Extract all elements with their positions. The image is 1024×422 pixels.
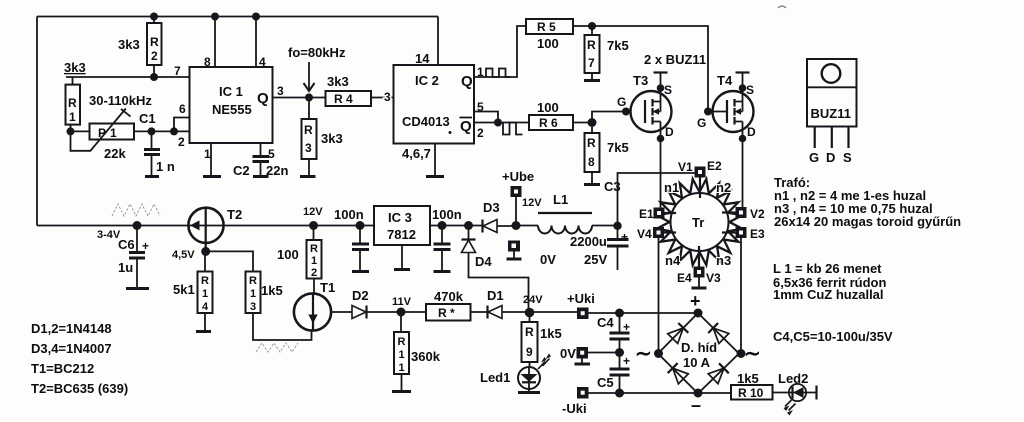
svg-text:Led1: Led1 [480, 370, 510, 385]
IC2 CD4013 [394, 65, 475, 144]
svg-text:C4,C5=10-100u/35V: C4,C5=10-100u/35V [773, 329, 893, 344]
wire: D4 anode to 24V node [469, 253, 529, 313]
terminal -Uki [577, 387, 589, 399]
node: bridge right [737, 349, 746, 358]
svg-text:D1,2=1N4148: D1,2=1N4148 [31, 321, 112, 336]
toroid transformer Tr [657, 179, 743, 265]
svg-text:10 A: 10 A [683, 355, 711, 370]
svg-text:C6: C6 [118, 237, 135, 252]
svg-text:D1: D1 [487, 288, 504, 303]
wire: P1 right to C1 node [134, 130, 190, 132]
potentiometer P1 22k [90, 124, 135, 140]
svg-text:-Uki: -Uki [562, 401, 587, 416]
bridge diode BR [708, 368, 724, 383]
svg-text:C4: C4 [597, 315, 614, 330]
svg-text:+: + [690, 291, 701, 311]
wire: pin 8 to rail [211, 13, 219, 21]
svg-text:C1: C1 [139, 111, 156, 126]
svg-text:1: 1 [399, 362, 405, 374]
svg-text:∼: ∼ [635, 343, 652, 365]
svg-text:11V: 11V [392, 296, 412, 308]
ground: IC2 pins 4,6,7 [434, 144, 436, 176]
wire: R13 to T1 emitter [253, 313, 312, 340]
squarewave symbol Q [486, 69, 510, 78]
led1 arrows [538, 359, 550, 370]
svg-text:3: 3 [305, 141, 312, 155]
svg-text:n2: n2 [716, 180, 731, 195]
terminal V2 [722, 211, 736, 213]
svg-text:4: 4 [202, 301, 209, 313]
svg-text:2: 2 [477, 126, 484, 140]
svg-text:–: – [691, 395, 701, 415]
svg-text:1k5: 1k5 [540, 326, 562, 341]
svg-text:R: R [201, 275, 209, 287]
svg-text:2: 2 [178, 135, 185, 149]
wire: left border vertical (top rail to 12V rail) [36, 17, 38, 226]
wire: pin 4 to rail [252, 13, 260, 21]
resistor R14 5k1 [204, 251, 206, 271]
svg-text:CD4013: CD4013 [402, 114, 450, 129]
wire: 12V rail [37, 225, 374, 227]
svg-text:3k3: 3k3 [118, 37, 140, 52]
svg-text:IC 1: IC 1 [219, 84, 243, 99]
resistor R* 470k [401, 311, 426, 313]
resistor R11 360k [400, 312, 402, 332]
svg-text:100n: 100n [432, 207, 462, 222]
svg-text:7: 7 [588, 56, 595, 70]
node: bridge left [654, 349, 663, 358]
svg-text:7k5: 7k5 [607, 140, 629, 155]
svg-text:R 4: R 4 [334, 92, 353, 106]
svg-text:T1: T1 [320, 280, 335, 295]
svg-text:0V: 0V [540, 252, 556, 267]
wire: top supply rail [37, 16, 438, 18]
wire: R1 node to P1 left [71, 130, 90, 132]
svg-text:2 x BUZ11: 2 x BUZ11 [644, 52, 706, 67]
svg-text:V1: V1 [678, 160, 693, 174]
terminal V1/E2 (primary center tap) [699, 176, 701, 198]
resistor R1 [72, 77, 74, 85]
wire: R5 to T4 gate rail [573, 26, 708, 112]
svg-text:12V: 12V [303, 206, 323, 218]
svg-text:R: R [68, 96, 77, 110]
wire: rail down to IC2 pin 14 [437, 17, 439, 66]
svg-text:100: 100 [277, 247, 299, 262]
svg-text:∼: ∼ [744, 343, 761, 365]
svg-text:5: 5 [268, 147, 275, 161]
svg-text:R 5: R 5 [537, 20, 556, 34]
svg-text:1: 1 [311, 255, 317, 267]
svg-text:470k: 470k [434, 289, 464, 304]
svg-text:3: 3 [384, 90, 391, 104]
svg-text:V3: V3 [706, 271, 721, 285]
svg-text:1: 1 [250, 288, 256, 300]
node: 24V / D4 / R9 [525, 308, 535, 318]
svg-text:25V: 25V [584, 252, 607, 267]
svg-text:+Uki: +Uki [567, 291, 595, 306]
IC3 7812 [374, 206, 430, 245]
svg-text:D3,4=1N4007: D3,4=1N4007 [31, 341, 112, 356]
svg-text:T3: T3 [633, 73, 648, 88]
node: D4/D3 [464, 221, 473, 230]
node: 11V [397, 308, 406, 317]
resistor R3 3k3 [308, 98, 310, 120]
svg-text:3: 3 [250, 301, 256, 313]
LED Led1 [529, 362, 531, 367]
svg-text:E3: E3 [750, 227, 765, 241]
resistor R6 100 [529, 115, 573, 130]
resistor R5 100 [526, 19, 573, 34]
svg-text:1k5: 1k5 [261, 283, 283, 298]
svg-text:7k5: 7k5 [607, 38, 629, 53]
svg-text:D. híd: D. híd [681, 340, 717, 355]
terminal V4 [664, 231, 676, 233]
svg-text:R: R [249, 275, 257, 287]
svg-text:1: 1 [399, 349, 405, 361]
svg-text:24V: 24V [523, 294, 543, 306]
svg-text:T2=BC635 (639): T2=BC635 (639) [31, 381, 128, 396]
svg-text:+: + [621, 230, 628, 244]
svg-text:R 6: R 6 [539, 116, 558, 130]
wire: pin 6 step [174, 118, 190, 132]
resistor R2 [150, 13, 158, 21]
svg-text:Led2: Led2 [778, 371, 808, 386]
svg-text:1k5: 1k5 [737, 371, 759, 386]
wire: 0V line [588, 352, 620, 354]
svg-text:R: R [398, 336, 406, 348]
svg-text:E1: E1 [639, 207, 654, 221]
svg-text:+: + [142, 239, 149, 253]
svg-text:E4: E4 [677, 271, 692, 285]
wire: V4 down to bridge left [658, 238, 660, 354]
wire: pin3 to R4 [273, 97, 326, 99]
svg-text:G: G [697, 116, 706, 130]
wire: 4.5V node to R13 [206, 251, 253, 271]
svg-text:L 1 = kb 26 menet: L 1 = kb 26 menet [773, 261, 882, 276]
svg-text:7812: 7812 [387, 227, 416, 242]
svg-text:8: 8 [588, 155, 595, 169]
svg-text:D: D [826, 150, 835, 165]
capacitor 100n (right of IC3) [438, 221, 447, 230]
BUZ11 package drawing [807, 59, 857, 127]
wire: -Uki line [583, 392, 732, 394]
svg-text:1: 1 [204, 147, 211, 161]
svg-text:C2: C2 [233, 163, 250, 178]
squarewave symbol Qbar [503, 123, 523, 135]
terminal E1 [664, 212, 676, 214]
svg-text:Q: Q [460, 118, 472, 135]
svg-text:30-110kHz: 30-110kHz [89, 93, 152, 108]
svg-text:2: 2 [311, 267, 317, 279]
wire: R1/pin7 net (3k3) [66, 76, 190, 78]
svg-text:+Ube: +Ube [502, 169, 534, 184]
node: R1 bottom / P1 [67, 127, 75, 135]
ground: pin 1 [210, 143, 212, 175]
svg-text:G: G [617, 95, 626, 109]
svg-text:S: S [664, 83, 672, 97]
capacitor 100n (left of IC3) [356, 221, 365, 230]
svg-text:D4: D4 [475, 254, 492, 269]
svg-text:1mm CuZ huzallal: 1mm CuZ huzallal [773, 287, 884, 302]
wire: C3 node up to V1/E2 center tap [618, 173, 696, 226]
wire: R1 node to wiper arm [71, 131, 92, 150]
svg-text:T1=BC212: T1=BC212 [31, 361, 94, 376]
resistor R10 1k5 [731, 385, 773, 400]
svg-text:3k3: 3k3 [321, 131, 343, 146]
svg-text:1u: 1u [118, 260, 133, 275]
svg-text:L1: L1 [553, 192, 568, 207]
svg-text:8: 8 [204, 55, 211, 69]
wire: Qbar pin2 to R6 [474, 122, 529, 124]
svg-text:D: D [747, 125, 756, 139]
svg-text:D2: D2 [352, 288, 369, 303]
svg-text:26x14 20 magas toroid gyűrűn: 26x14 20 magas toroid gyűrűn [774, 214, 961, 229]
stray mark [778, 6, 786, 8]
wire: pin5 stub [474, 112, 498, 123]
svg-text:IC 2: IC 2 [415, 73, 439, 88]
svg-text:3: 3 [277, 84, 284, 98]
svg-text:C5: C5 [597, 375, 614, 390]
svg-text:Tr: Tr [692, 215, 704, 230]
svg-text:3k3: 3k3 [327, 74, 349, 89]
bridge diode TR [713, 328, 729, 344]
svg-text:T2: T2 [227, 207, 242, 222]
svg-text:100: 100 [537, 100, 559, 115]
svg-text:D3: D3 [483, 200, 500, 215]
resistor R9 1k5 [529, 313, 531, 323]
bridge diode TL [668, 328, 684, 344]
svg-text:Q: Q [461, 73, 473, 90]
led2 arrows [785, 400, 796, 411]
svg-text:12V: 12V [522, 197, 542, 209]
toroid labels [664, 180, 731, 268]
resistor R12 100 [309, 221, 318, 230]
svg-text:Q: Q [257, 90, 269, 107]
svg-text:R: R [150, 35, 159, 49]
diode D4 [468, 226, 470, 240]
svg-text:5k1: 5k1 [173, 282, 195, 297]
wire: R4 to IC2 pin3 [371, 97, 394, 99]
svg-text:100: 100 [537, 36, 559, 51]
svg-text:R *: R * [438, 306, 455, 320]
node: bridge - [694, 389, 703, 398]
svg-text:G: G [809, 150, 819, 165]
bridge rectifier D. hid 10A [658, 313, 739, 394]
IC1 NE555 [190, 67, 273, 143]
terminal E3 [722, 231, 736, 233]
svg-text:2: 2 [151, 49, 158, 63]
svg-text:1: 1 [202, 288, 208, 300]
svg-text:R: R [587, 38, 596, 52]
svg-text:S: S [843, 150, 852, 165]
node: C6 [133, 221, 142, 230]
resistor R4 3k3 [326, 91, 372, 106]
svg-text:1: 1 [110, 126, 117, 140]
svg-text:1: 1 [69, 110, 76, 124]
node: C1 / pin2 [148, 127, 156, 135]
svg-text:R: R [587, 136, 596, 150]
svg-text:4: 4 [259, 55, 266, 69]
wire: Q pin1 out, up to R5 [474, 26, 526, 77]
svg-text:2200u: 2200u [570, 234, 607, 249]
svg-text:R: R [310, 243, 318, 255]
svg-text:BUZ11: BUZ11 [811, 106, 851, 121]
svg-text:n3: n3 [716, 253, 731, 268]
bridge diode BL [673, 368, 689, 384]
wire: R6 to T3 gate [573, 112, 645, 126]
node: bridge + [694, 309, 703, 318]
svg-text:fo=80kHz: fo=80kHz [288, 45, 346, 60]
svg-text:n4: n4 [665, 253, 681, 268]
svg-text:1 n: 1 n [156, 159, 175, 174]
svg-text:V2: V2 [750, 207, 765, 221]
svg-text:+: + [623, 354, 630, 368]
svg-text:R 10: R 10 [738, 386, 764, 400]
svg-text:6: 6 [179, 102, 186, 116]
wire: IC3 out [430, 225, 482, 227]
svg-text:NE555: NE555 [212, 102, 252, 117]
svg-text:E2: E2 [707, 159, 722, 173]
terminal E4/V3 (secondary center tap) [698, 246, 700, 267]
svg-text:V4: V4 [637, 227, 652, 241]
diode D1 [471, 311, 488, 313]
capacitor C2 22n [260, 143, 262, 156]
resistor R13 1k5 [246, 272, 261, 314]
terminal 0V (mid) [508, 241, 520, 252]
svg-text:T4: T4 [717, 73, 733, 88]
transistor T2 [188, 208, 223, 243]
node: 4.5V [201, 247, 210, 256]
svg-text:D: D [665, 125, 674, 139]
zigzag decoration 2 [256, 343, 298, 352]
svg-text:4,6,7: 4,6,7 [402, 146, 431, 161]
svg-text:S: S [746, 83, 754, 97]
svg-text:22n: 22n [266, 163, 288, 178]
capacitor C4 [615, 309, 624, 318]
svg-text:14: 14 [415, 51, 430, 66]
svg-text:3k3: 3k3 [64, 60, 86, 75]
svg-text:9: 9 [526, 345, 533, 359]
svg-text:0V: 0V [560, 346, 576, 361]
svg-text:7: 7 [174, 64, 181, 78]
svg-text:R: R [525, 325, 534, 339]
svg-text:22k: 22k [104, 146, 126, 161]
svg-text:360k: 360k [411, 349, 441, 364]
svg-text:n1: n1 [664, 180, 679, 195]
resistor R7 7k5 [591, 26, 593, 35]
zigzag decoration 1 [112, 204, 160, 216]
svg-text:4,5V: 4,5V [172, 249, 195, 261]
resistor R8 7k5 [591, 127, 593, 133]
node: C3 [613, 222, 621, 230]
svg-text:R: R [304, 123, 313, 137]
wire: +Uki line [578, 312, 698, 314]
svg-text:100n: 100n [334, 207, 364, 222]
wire: E3 down to bridge right [740, 238, 742, 354]
svg-text:IC 3: IC 3 [388, 210, 412, 225]
